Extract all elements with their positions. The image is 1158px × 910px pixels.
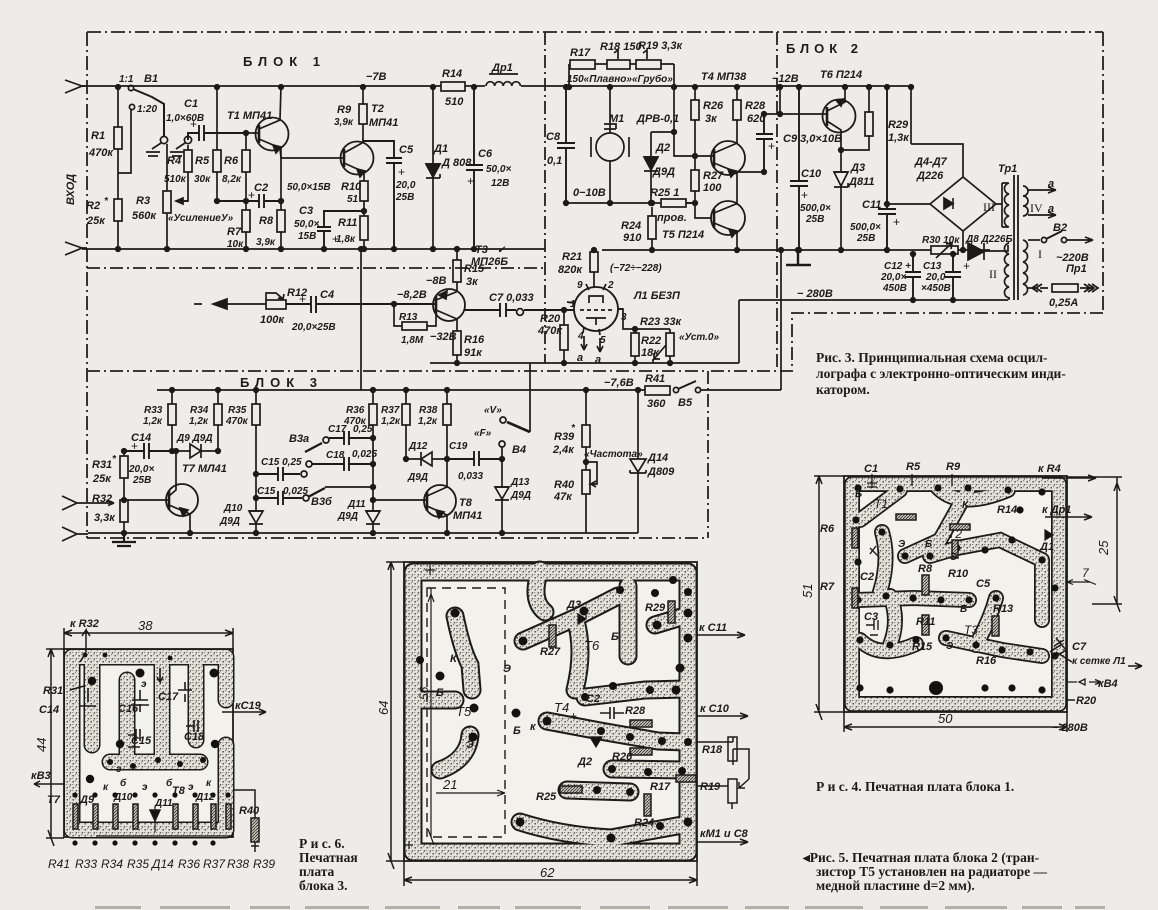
svg-text:Др1: Др1 [491,62,513,74]
svg-text:R11: R11 [916,616,935,628]
svg-text:блока 3.: блока 3. [299,878,348,893]
svg-text:R31: R31 [92,459,112,471]
svg-text:R37: R37 [203,857,226,871]
capacitor C3 50x15V [294,205,364,251]
svg-text:Т8: Т8 [459,497,473,509]
svg-text:15В: 15В [298,231,316,242]
node: output arrow to deflection [194,299,227,309]
svg-text:470к: 470к [537,325,563,337]
capacitor C15 0.25 [254,457,307,481]
node: R31 callout [39,685,96,716]
svg-text:R40: R40 [554,479,575,491]
svg-text:Д3: Д3 [850,162,865,174]
svg-text:«V»: «V» [484,405,502,416]
svg-text:R35: R35 [228,405,247,416]
svg-text:1,2к: 1,2к [189,416,209,427]
svg-text:С18: С18 [184,731,205,743]
svg-text:30к: 30к [194,174,211,185]
svg-text:В2: В2 [1053,222,1067,234]
frame: left dash-dot border [86,32,88,538]
resistor R38 1.2k [418,388,451,462]
svg-text:С9 3,0×10В: С9 3,0×10В [783,133,842,145]
resistor and diode marks on figure 5 [549,601,696,816]
potentiometer R12 100k [260,287,307,326]
svg-text:Д9Д: Д9Д [510,490,531,501]
svg-text:С10: С10 [801,168,822,180]
svg-text:R2: R2 [86,200,100,212]
svg-text:зистор Т5 установлен на радиат: зистор Т5 установлен на радиаторе — [816,864,1048,879]
svg-text:20,0: 20,0 [395,180,416,191]
svg-text:Д2: Д2 [577,756,592,768]
svg-text:плата: плата [299,864,335,879]
resistor R2 25k [86,173,122,251]
resistor R19 external on figure 5 [697,779,749,809]
svg-text:Т3: Т3 [964,623,978,637]
svg-text:Р и с. 4. Печатная плата б: Р и с. 4. Печатная плата блока 1. [816,779,1014,794]
svg-text:R19: R19 [700,781,721,793]
svg-text:50,0×: 50,0× [294,219,319,230]
svg-text:R6: R6 [224,155,239,167]
svg-text:25к: 25к [92,473,112,485]
wire: block3 top rail -7.6V [157,389,645,391]
potentiometer R23 33k set-zero [618,309,719,365]
svg-text:к С10: к С10 [700,703,730,715]
svg-text:R11: R11 [338,217,357,229]
svg-text:R17: R17 [570,47,591,59]
resistor row R41 R33 R34 R35 D14 R36 R37 R38 on board bottom [73,804,233,836]
node: dimension 38 top [64,618,233,649]
vacuum tube L1 6E3P indicator [567,280,681,366]
svg-text:Т1 МП41: Т1 МП41 [227,110,272,122]
svg-text:100к: 100к [260,314,285,326]
node: kV3 callout arrow [31,770,64,787]
svg-text:R40: R40 [239,805,260,817]
PCB board figure 6 block 3 [64,649,233,837]
capacitor C18 0.025 [306,449,377,471]
svg-text:910: 910 [623,232,642,244]
svg-text:a: a [595,354,601,366]
wire: T6 base feed [764,87,827,114]
svg-text:R36: R36 [178,857,200,871]
svg-text:Д8 Д226Б: Д8 Д226Б [965,234,1013,245]
svg-text:Э: Э [503,663,511,675]
svg-text:25: 25 [1096,540,1111,556]
svg-text:«F»: «F» [474,428,492,439]
wire: middle bottom bus at y363 [430,362,739,364]
svg-text:56: 56 [417,686,431,700]
svg-text:С18: С18 [326,450,345,461]
svg-text:R38: R38 [419,405,438,416]
node: kC10 callout arrow [697,703,748,719]
svg-text:91к: 91к [464,347,483,359]
svg-text:МП41: МП41 [369,117,398,129]
svg-text:50,0×: 50,0× [486,164,511,175]
svg-text:25В: 25В [856,233,875,244]
svg-text:20,0×: 20,0× [880,272,906,283]
capacitor C7 0.033 [465,292,574,317]
svg-text:Т2: Т2 [948,527,962,541]
svg-text:Д14: Д14 [647,452,668,464]
wire: block2 ground rail [602,249,990,251]
svg-text:0,1: 0,1 [547,155,562,167]
svg-text:С7: С7 [1072,641,1087,653]
svg-text:20,0: 20,0 [925,272,946,283]
svg-text:С13: С13 [923,261,942,272]
svg-text:R5: R5 [906,461,921,473]
svg-text:С15 0,25: С15 0,25 [261,457,302,468]
node: dimension 50 bottom of figure 4 [844,711,1067,732]
svg-text:R10: R10 [341,181,362,193]
capacitor C2 [215,182,331,208]
svg-text:С3: С3 [299,205,313,217]
svg-text:+: + [398,165,405,179]
frame: divider between block 1 and block 2 [544,32,546,363]
svg-text:×450В: ×450В [921,283,951,294]
svg-text:R29: R29 [888,119,909,131]
svg-text:С1: С1 [184,98,198,110]
svg-text:R26: R26 [703,100,724,112]
svg-text:В4: В4 [512,444,526,456]
svg-text:R27: R27 [703,170,724,182]
svg-text:к Др1: к Др1 [1042,504,1071,516]
jack: probe signal jack with hook [170,136,192,156]
svg-text:3,3к: 3,3к [94,512,116,524]
svg-text:Д1: Д1 [1039,541,1054,553]
svg-text:R19 3,3к: R19 3,3к [638,40,684,52]
svg-text:Т6 П214: Т6 П214 [820,69,862,81]
diode D12 D9D [406,441,447,483]
potentiometer R3 560k gain control [132,144,234,251]
capacitor C10 500x25V [790,85,831,253]
resistor R15 3k [453,247,485,291]
node: pads on figure 4 board [852,484,1058,695]
svg-text:25В: 25В [132,475,151,486]
node: dashed radiator outline for T5 [427,588,505,837]
svg-text:38: 38 [138,618,153,633]
svg-text:R34: R34 [190,405,209,416]
svg-text:R25 1: R25 1 [650,187,679,199]
capacitor C15a 0.025 [254,486,309,505]
resistor R24 910 [621,207,656,252]
svg-text:Д3: Д3 [566,599,581,611]
svg-text:R28: R28 [745,100,766,112]
svg-text:Д9 Д9Д: Д9 Д9Д [176,433,213,444]
svg-text:С11: С11 [862,199,881,211]
resistor R33 1.2k [143,388,176,454]
svg-text:3к: 3к [705,113,718,125]
svg-text:−7,6В: −7,6В [604,377,634,389]
svg-text:к сетке Л1: к сетке Л1 [1072,656,1126,667]
fuse Pr1 0.25A [1028,263,1098,309]
diode D14 D809 zener [630,388,675,533]
svg-text:лографа с электронно-оптически: лографа с электронно-оптическим инди- [816,366,1066,381]
svg-text:R13: R13 [399,312,418,323]
svg-text:С2: С2 [254,182,268,194]
resistor R41 360 [645,373,670,410]
svg-text:500,0×: 500,0× [850,222,881,233]
svg-text:б: б [166,777,173,789]
resistor R11 1.8k [336,216,368,251]
resistor R36 470k [343,388,377,511]
svg-text:20,0×25В: 20,0×25В [291,322,336,333]
svg-text:360: 360 [647,398,666,410]
svg-text:− 280В: − 280В [1052,722,1088,734]
svg-text:Б: Б [855,489,862,500]
svg-text:R20: R20 [1076,695,1097,707]
svg-text:R33: R33 [144,405,163,416]
node: kC19 callout arrow [222,700,266,715]
resistor R6 8.2k [222,131,250,201]
svg-text:1,3к: 1,3к [888,132,910,144]
resistor R7 10k [227,201,250,251]
wire: V-F selector feed vertical [529,363,531,432]
svg-text:R14: R14 [442,68,462,80]
node: dimension 25 right of figure 4 [1067,477,1122,612]
inductor Dr1 choke [485,62,521,90]
resistor R25 1 wire-wound [650,187,695,224]
capacitor C8 0.1 [546,85,575,206]
switch B4 with V F contacts [474,405,530,459]
svg-text:R33: R33 [75,857,97,871]
jack: probe ground jack with hook [146,136,168,156]
resistor R4 510k [164,145,192,201]
frame: bottom dash-dot border of block 1 [87,267,545,269]
svg-text:ДРВ-0,1: ДРВ-0,1 [636,113,679,125]
svg-text:R18: R18 [702,744,723,756]
svg-text:БЛОК 2: БЛОК 2 [786,41,863,56]
svg-text:Пр1: Пр1 [1066,263,1087,275]
node: pads on figure 6 board [72,653,230,846]
svg-text:510: 510 [445,96,464,108]
svg-text:R13: R13 [993,603,1013,615]
diode D13 D9D [495,459,531,535]
svg-text:R24: R24 [634,817,654,829]
capacitor C5 20x25V [363,141,416,251]
svg-text:Д9Д: Д9Д [407,472,428,483]
svg-text:R8: R8 [259,215,274,227]
label: figure 5 component names [436,599,671,829]
svg-text:С17: С17 [158,691,179,703]
svg-text:R17: R17 [650,781,671,793]
svg-text:R9: R9 [337,104,352,116]
svg-text:R36: R36 [346,405,365,416]
node: kDr1 callout arrow [1042,504,1092,520]
svg-text:III: III [983,200,995,214]
svg-text:2: 2 [607,280,614,291]
svg-text:R26: R26 [612,751,633,763]
ground [112,533,136,546]
svg-text:R38: R38 [227,857,249,871]
svg-text:Д226: Д226 [916,170,944,182]
node: input terminal top arrow [65,80,87,93]
wire: -280V staircase vertical [738,300,740,363]
svg-text:R41: R41 [645,373,665,385]
svg-text:2,4к: 2,4к [552,444,575,456]
svg-text:II: II [989,267,997,281]
svg-text:Т5 П214: Т5 П214 [662,229,704,241]
svg-text:Т7 МЛ41: Т7 МЛ41 [182,463,227,475]
diode D2 D9D [644,130,676,206]
resistor R35 470k [225,388,260,474]
svg-text:Д10: Д10 [113,792,133,803]
capacitor C11 500x25V [850,85,900,253]
switch B3a [289,433,329,452]
svg-text:Т1: Т1 [874,497,888,511]
svg-text:R34: R34 [101,857,123,871]
svg-text:Т7: Т7 [47,794,61,806]
svg-text:Э: Э [898,539,906,550]
svg-text:R9: R9 [946,461,961,473]
svg-text:9: 9 [577,280,583,291]
svg-text:Д12: Д12 [195,792,215,803]
svg-text:R8: R8 [918,563,933,575]
svg-text:450В: 450В [882,283,907,294]
frame: outer dash-dot top border of schematic [87,31,1103,33]
svg-text:Печатная: Печатная [299,850,358,865]
svg-text:э: э [141,679,147,690]
svg-text:медной пластине d=2 мм).: медной пластине d=2 мм). [816,878,975,893]
node: winding IV output arrows a a [1028,178,1056,218]
resistor R9 3.9k [334,85,367,141]
node: input arrow 1 to R32 [62,496,114,510]
svg-text:R5: R5 [195,155,210,167]
svg-text:1: 1 [570,299,576,310]
svg-text:Т2: Т2 [371,103,384,115]
svg-text:25В: 25В [805,214,824,225]
svg-text:R32: R32 [92,493,112,505]
svg-text:Б: Б [513,725,521,737]
svg-text:(−72÷−228): (−72÷−228) [610,263,662,274]
svg-text:Д 808: Д 808 [441,157,472,169]
svg-text:В3б: В3б [311,496,333,508]
diode D3 D811 zener [834,132,874,252]
svg-text:−7В: −7В [366,71,387,83]
resistor R16 91k [453,319,485,365]
resistor R31 25k [92,449,128,500]
svg-text:Б: Б [611,631,619,643]
svg-text:64: 64 [376,701,391,715]
svg-text:Т3: Т3 [475,244,488,256]
resistor R10 51 [341,181,368,216]
svg-text:ВХОД: ВХОД [65,174,77,205]
capacitor C13 20x450V [921,252,970,303]
svg-text:150«Плавно»«Грубо»: 150«Плавно»«Грубо» [567,73,673,85]
svg-text:− 280В: − 280В [797,288,833,300]
ground [786,248,811,265]
svg-text:+: + [299,292,306,306]
svg-text:0,033: 0,033 [458,471,483,482]
svg-text:э: э [188,782,194,793]
svg-text:+: + [467,174,474,188]
node: pads on figure 5 board [416,576,693,843]
svg-text:0,025: 0,025 [283,486,308,497]
svg-text:С8: С8 [546,131,561,143]
svg-text:С7 0,033: С7 0,033 [489,292,534,304]
svg-text:Э: Э [950,552,958,563]
svg-text:18к: 18к [641,347,660,359]
node: dimension 62 bottom [404,861,697,886]
svg-text:Л1 БЕ3П: Л1 БЕ3П [633,290,681,302]
svg-text:R23 33к: R23 33к [640,316,682,328]
svg-text:1,2к: 1,2к [418,416,438,427]
resistor R5 30k [194,85,221,201]
svg-text:R3: R3 [136,195,150,207]
node: dimension 51 left of figure 4 [800,476,844,720]
resistor R1 470k [88,85,131,173]
PCB board figure 5 block 2 [404,562,697,861]
svg-text:кМ1 и С8: кМ1 и С8 [700,828,749,840]
node: corner cross marks [405,565,435,849]
capacitor C7 callout grid of L1 [1050,641,1142,669]
svg-text:470к: 470к [225,416,249,427]
svg-text:R35: R35 [127,857,149,871]
svg-text:+: + [570,709,577,723]
svg-text:51: 51 [800,584,815,598]
svg-text:Д811: Д811 [848,176,874,188]
svg-text:1,0×60В: 1,0×60В [166,113,204,124]
svg-text:Э: Э [466,739,474,751]
transistor T5 P214 [662,172,745,252]
svg-text:−12В: −12В [772,73,799,85]
svg-text:R37: R37 [381,405,400,416]
potentiometer R32 3.3k [92,493,128,535]
frame: right dash-dot border of block 2 [1102,32,1104,313]
svg-text:Рис. 3. Принципиальная схема о: Рис. 3. Принципиальная схема осцил- [816,350,1048,365]
svg-text:С4: С4 [320,289,334,301]
svg-text:R1: R1 [91,130,105,142]
svg-text:10к: 10к [227,239,244,250]
svg-text:R18 150: R18 150 [600,41,642,53]
svg-text:0,25А: 0,25А [1049,297,1078,309]
svg-text:Д809: Д809 [647,466,675,478]
diode D9 D9D [149,433,218,458]
node: dimension 7 right of figure 4 [1067,566,1096,585]
resistor R29 1.3k [839,85,911,153]
wire: B5 to block2 link [700,250,781,390]
capacitor C19 0.033 [447,441,504,482]
svg-text:−8В: −8В [426,275,447,287]
svg-text:«Уст.0»: «Уст.0» [679,332,719,343]
svg-text:R4: R4 [167,155,181,167]
svg-text:25к: 25к [86,215,106,227]
label: figure 6 bottom designators [48,857,275,871]
svg-text:R25: R25 [536,791,557,803]
switch B5 [673,381,700,409]
svg-text:50,0×15В: 50,0×15В [287,182,331,193]
svg-text:С14: С14 [39,704,59,716]
diode D11 D9D [337,499,380,535]
switch B1 input divider selector [119,73,164,136]
wire: top rail -7V from input to block2 [82,85,911,87]
frame: block 3 dash-dot outline [87,371,708,538]
node: page-bottom scan artifact [95,906,1105,909]
svg-text:БЛОК 1: БЛОК 1 [243,54,326,69]
label: figure 4 component names [864,461,961,475]
wire: block1 to block3 link vertical [360,249,362,390]
svg-text:560к: 560к [132,210,157,222]
capacitor C4 20x25V [286,289,435,333]
svg-text:«УсилениеУ»: «УсилениеУ» [168,213,234,224]
svg-text:Т6: Т6 [584,638,600,653]
svg-text:Б: Б [436,687,444,699]
resistor R34 1.2k [189,388,222,454]
node: dimension 44 left [34,649,64,846]
diode D10 D9D [219,474,263,535]
resistor R37 1.2k [381,388,410,462]
svg-text:Б: Б [960,604,967,615]
transistor T4 MP38 [701,71,766,177]
label: T3 MP26B [471,244,508,268]
